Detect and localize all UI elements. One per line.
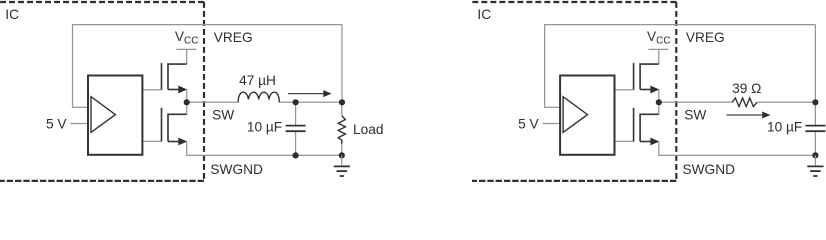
wire SW node to lower FET drain <box>186 102 188 114</box>
IC dashed boundary box (right circuit, open on left) <box>471 2 677 181</box>
transistor Q4 source arrow <box>650 138 659 146</box>
node SW junction at FETs <box>184 99 190 105</box>
wire feedback drop to amplifier input <box>545 24 561 107</box>
svg-text:CC: CC <box>184 36 198 47</box>
svg-text:SWGND: SWGND <box>683 162 736 177</box>
wire load bottom lead <box>341 144 343 156</box>
wires (gray) <box>543 24 816 155</box>
current arrow (left circuit) <box>288 93 324 95</box>
wire VREG feedback rail (top) <box>73 24 343 26</box>
wire amplifier output to upper FET gate <box>142 89 161 91</box>
node capacitor to SWGND <box>293 152 299 158</box>
transistor Q2 source line <box>168 141 179 143</box>
wire SWGND rail <box>659 154 816 156</box>
node VREG output <box>812 99 818 105</box>
current arrow (right circuit) <box>727 114 764 116</box>
node load bottom / ground <box>339 152 345 158</box>
wire load top lead <box>341 102 343 115</box>
svg-text:10 µF: 10 µF <box>767 119 802 134</box>
svg-text:SWGND: SWGND <box>210 162 263 177</box>
op-amp U1 triangle <box>91 97 115 133</box>
transistor Q1 source line <box>168 89 179 91</box>
wire amplifier output to lower FET gate <box>142 140 161 142</box>
wire VREG right rail down to output node <box>814 25 816 103</box>
transistor Q3 source arrow <box>650 86 659 94</box>
transistor Q2 drain jog and channel <box>168 114 187 141</box>
wire SW node to lower FET drain <box>658 102 660 114</box>
ground symbol (right) <box>807 166 823 176</box>
wire SW rail from FET node to inductor <box>187 101 239 103</box>
transistor Q3 source line <box>640 89 651 91</box>
wire VCC drop to upper FET drain <box>658 49 660 64</box>
wire upper FET source to SW node <box>186 90 188 103</box>
node capacitor tap on SW rail <box>293 99 299 105</box>
wire feedback drop to amplifier input <box>73 24 89 107</box>
transistor Q4 source line <box>640 141 651 143</box>
transistor Q1 source arrow <box>178 86 187 94</box>
node capacitor to SWGND / ground <box>812 152 818 158</box>
transistor Q4 (lower FET) gate bar <box>633 108 635 142</box>
wire 5V input lead <box>543 123 561 125</box>
svg-text:39 Ω: 39 Ω <box>732 81 761 96</box>
op-amp U2 triangle <box>563 97 587 133</box>
wire VCC terminal bar <box>648 48 668 50</box>
wire lower FET source down to SWGND <box>186 142 188 156</box>
capacitor C2 plates (10uF) <box>805 126 825 132</box>
wire VCC terminal bar <box>176 48 196 50</box>
transistor Q1 drain jog and channel <box>168 64 187 89</box>
wire capacitor C1 bottom lead <box>295 132 297 156</box>
wire lower FET source down to SWGND <box>658 142 660 156</box>
IC dashed boundary box (left border cropped off-canvas) <box>0 2 204 181</box>
svg-text:SW: SW <box>684 108 706 123</box>
svg-text:5 V: 5 V <box>518 117 539 132</box>
wire capacitor C1 top lead <box>295 102 297 125</box>
wire VREG right rail down to output node <box>341 25 343 103</box>
wire 5V input lead <box>71 123 89 125</box>
ground stub (left) <box>341 155 343 165</box>
wire capacitor C2 bottom lead <box>814 132 816 156</box>
transistor Q2 source arrow <box>178 138 187 146</box>
svg-text:47 µH: 47 µH <box>239 73 276 88</box>
transistor Q3 (upper FET) gate bar <box>633 63 635 90</box>
op-amp U2 box <box>560 76 614 155</box>
wire SWGND rail <box>187 154 342 156</box>
wire SW rail from inductor to output node <box>279 101 342 103</box>
inductor L1 47uH <box>238 92 279 102</box>
svg-text:5 V: 5 V <box>46 117 67 132</box>
wire VREG feedback rail (top) <box>545 24 816 26</box>
resistor R1 39 ohm <box>732 98 757 107</box>
svg-text:Load: Load <box>353 122 383 137</box>
svg-text:CC: CC <box>656 36 670 47</box>
transistor Q1 (upper FET) gate bar <box>161 63 163 90</box>
ground stub (right) <box>814 155 816 165</box>
wire capacitor C2 top lead <box>814 102 816 125</box>
wire upper FET source to SW node <box>658 90 660 103</box>
wire SW rail from FET node to resistor <box>659 101 732 103</box>
wires (gray) <box>71 24 343 155</box>
op-amp U1 box <box>88 76 142 155</box>
capacitor C1 plates (10uF) <box>286 126 306 132</box>
ground symbol (left) <box>334 166 350 176</box>
svg-text:VREG: VREG <box>686 30 725 45</box>
wire amplifier output to upper FET gate <box>615 89 634 91</box>
transistor Q2 (lower FET) gate bar <box>161 108 163 142</box>
resistor Load zigzag <box>338 116 345 144</box>
svg-text:IC: IC <box>477 7 491 22</box>
svg-text:10 µF: 10 µF <box>247 119 282 134</box>
wire SW rail from resistor to output node <box>757 101 816 103</box>
svg-text:VREG: VREG <box>214 30 253 45</box>
transistor Q3 drain jog and channel <box>640 64 659 89</box>
node VREG output <box>339 99 345 105</box>
wire amplifier output to lower FET gate <box>615 140 634 142</box>
svg-text:IC: IC <box>5 7 19 22</box>
svg-text:SW: SW <box>212 108 234 123</box>
node SW junction at FETs <box>656 99 662 105</box>
wire VCC drop to upper FET drain <box>186 49 188 64</box>
transistor Q4 drain jog and channel <box>640 114 659 141</box>
